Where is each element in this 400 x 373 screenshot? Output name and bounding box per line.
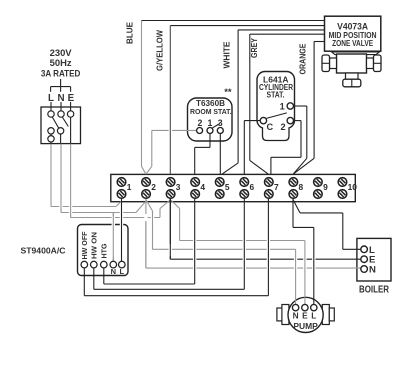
svg-text:BOILER: BOILER <box>359 284 389 295</box>
svg-text:3: 3 <box>176 182 181 192</box>
svg-text:10: 10 <box>348 182 358 192</box>
svg-text:G/YELLOW: G/YELLOW <box>155 30 165 71</box>
svg-text:WHITE: WHITE <box>222 41 232 68</box>
svg-text:2: 2 <box>151 182 156 192</box>
svg-text:ROOM STAT.: ROOM STAT. <box>190 107 232 116</box>
svg-text:L: L <box>311 310 316 320</box>
svg-text:6: 6 <box>249 182 254 192</box>
svg-text:7: 7 <box>274 182 279 192</box>
svg-text:8: 8 <box>299 182 304 192</box>
svg-text:**: ** <box>224 87 232 98</box>
svg-text:ZONE VALVE: ZONE VALVE <box>332 39 373 48</box>
svg-text:GREY: GREY <box>250 37 259 58</box>
svg-text:1: 1 <box>127 182 132 192</box>
svg-text:2: 2 <box>197 118 202 128</box>
svg-text:BLUE: BLUE <box>124 22 134 44</box>
svg-text:E: E <box>68 93 75 104</box>
svg-text:HTG: HTG <box>100 243 109 258</box>
svg-text:1: 1 <box>207 118 212 128</box>
svg-text:E: E <box>302 310 308 320</box>
svg-text:HW ON: HW ON <box>90 232 99 259</box>
svg-text:2: 2 <box>280 122 285 132</box>
svg-text:N: N <box>369 265 376 276</box>
svg-text:5: 5 <box>225 182 230 192</box>
svg-text:N: N <box>293 310 299 320</box>
svg-text:9: 9 <box>323 182 328 192</box>
svg-text:ORANGE: ORANGE <box>298 43 308 74</box>
svg-text:C: C <box>266 122 273 132</box>
svg-text:V4073A: V4073A <box>337 21 368 31</box>
svg-text:L: L <box>48 93 54 104</box>
svg-text:STAT.: STAT. <box>267 90 285 99</box>
svg-text:L: L <box>120 267 125 276</box>
svg-text:3A RATED: 3A RATED <box>41 69 81 79</box>
svg-text:PUMP: PUMP <box>293 321 318 331</box>
svg-text:ST9400A/C: ST9400A/C <box>21 246 66 256</box>
svg-text:230V: 230V <box>50 48 73 59</box>
svg-text:3: 3 <box>218 118 223 128</box>
svg-text:1: 1 <box>280 101 285 111</box>
svg-text:N: N <box>57 93 64 104</box>
svg-text:HW OFF: HW OFF <box>80 231 89 260</box>
svg-text:N: N <box>111 267 116 276</box>
svg-text:4: 4 <box>200 182 205 192</box>
svg-text:50Hz: 50Hz <box>50 58 72 69</box>
